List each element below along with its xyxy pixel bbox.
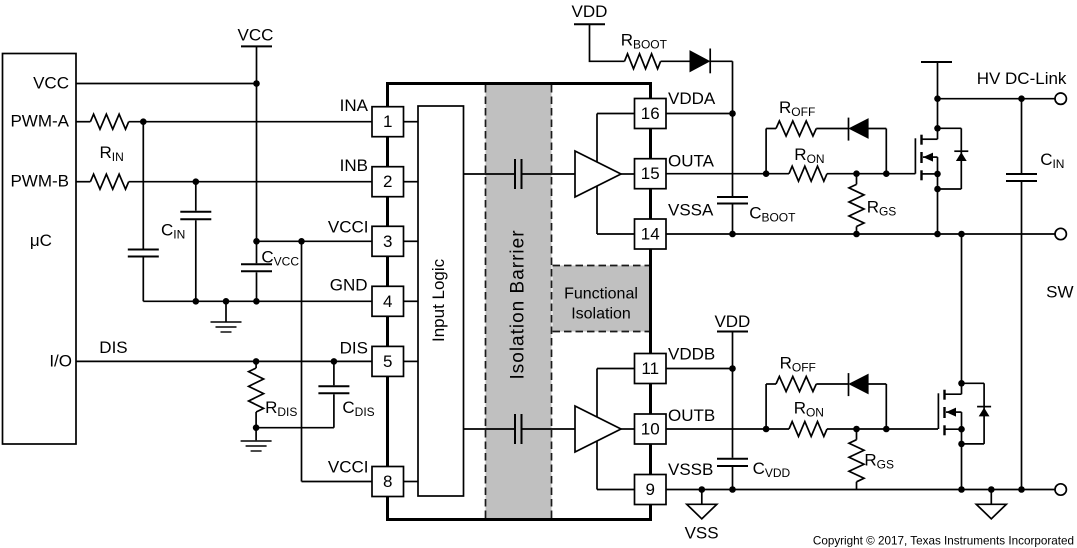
junction VCCI rail [253,238,260,245]
wire logic to isocap A [464,173,515,175]
junction OUTB roff [763,426,770,433]
junction VSSA rgs [853,231,860,238]
buffer amplifier B [575,406,621,452]
pin 9 [635,475,667,505]
junction CBOOT vssa [729,231,736,238]
isolation barrier right dashed edge [551,85,553,518]
MOSFET Q2 gate [938,390,944,436]
wire ROFF B to diode [816,383,848,385]
isolation capacitor A [515,159,522,189]
svg-text:4: 4 [383,292,392,311]
wire ROFF B left leg [765,384,767,429]
wire RGS A top [856,174,858,185]
junction OUTA rgs [853,170,860,177]
resistor RIN-B [90,174,128,189]
wire CDIS top [333,361,335,385]
wire VDD B rail lower [732,467,734,490]
pin 4 [372,286,404,316]
wire driver A rail [596,114,598,235]
svg-text:3: 3 [383,232,392,251]
pin 15 [635,159,667,189]
wire isocap A to buffer [523,173,576,175]
wire ROFF B right leg [885,384,887,429]
junction Q1 source [934,171,941,178]
wire CVCC top [256,241,258,263]
svg-text:VDD: VDD [572,2,608,21]
terminal SW [1055,228,1066,239]
MOSFET Q1 body arrow [923,153,938,162]
wire Q1 source stub [922,173,938,175]
svg-text:16: 16 [641,104,660,123]
wire CIN top [195,182,197,211]
wire cap-A bottom [142,258,144,302]
junction OUTA roff [763,170,770,177]
wire Q2 drain column [961,234,963,394]
resistor RBOOT [625,54,661,69]
junction HV row [934,95,941,102]
svg-text:8: 8 [383,472,392,491]
junction body diode A top [934,125,941,132]
svg-text:VDDA: VDDA [668,89,716,108]
svg-text:VCC: VCC [33,73,69,92]
wire HV drain column A [937,62,939,139]
terminal HV DC-Link [1055,93,1066,104]
svg-text:10: 10 [641,420,660,439]
svg-text:VSSB: VSSB [668,460,713,479]
wire PWM-A to INA [129,121,372,123]
wire Q1 drain stub [922,138,938,140]
wire ROFF A to diode [816,128,848,130]
svg-text:Input Logic: Input Logic [429,258,448,342]
junction OUTB rgs [853,426,860,433]
resistor RDIS [249,368,264,412]
wire OUTA row left [666,173,789,175]
wire driver B vss stub [597,489,635,491]
wire VDD A to RBOOT [590,24,625,61]
resistor RON A [789,166,827,181]
wire stub DIS5 [404,360,419,362]
wire CVCC bottom [256,272,258,301]
pin 1 [372,107,404,137]
svg-text:VCC: VCC [238,25,274,44]
wire VDDB row [666,368,733,370]
input logic box [418,106,464,496]
junction RDIS gnd [253,424,260,431]
pin 5 [372,346,404,376]
junction DIS CDIS [331,358,338,365]
junction SW fetB [958,231,965,238]
MOSFET Q2 body arrow [946,408,962,417]
svg-text:VDD: VDD [714,312,750,331]
wire Q2 source column [961,412,963,489]
wire stub VCCI3 [404,240,419,242]
wire pwr gnd stub [990,490,992,505]
svg-text:Copyright © 2017, Texas Instru: Copyright © 2017, Texas Instruments Inco… [813,534,1074,547]
wire OUTA row right [827,173,915,175]
junction GND CIN [193,298,200,305]
wire OUTB row right [827,428,938,430]
wire driver B vdd stub [597,368,635,370]
wire driver A vss stub [597,233,635,235]
wire ROFF A lead [766,128,776,130]
wire RGS A bottom [856,227,858,235]
wire RDIS top [255,361,257,368]
wire diode A out [868,128,886,130]
junction OUTA diode [883,170,890,177]
terminal bottom [1055,484,1066,495]
capacitor CBOOT [717,197,748,204]
junction DIS RDIS [253,358,260,365]
svg-text:1: 1 [383,112,392,131]
pin 8 [372,467,404,497]
junction body diode B top [958,380,965,387]
svg-text:14: 14 [641,225,660,244]
svg-text:15: 15 [641,164,660,183]
wire PWM-A stub [76,121,90,123]
wire RGS B bottom [856,482,858,490]
junction OUTB diode [883,426,890,433]
svg-text:9: 9 [646,480,655,499]
wire logic to isocap B [464,428,515,430]
ground VSS triangle [687,504,717,519]
junction VCC [253,80,260,87]
capacitor CIN right [1006,174,1037,181]
wire VCC rail down [256,46,258,241]
diode DOFF B [849,373,869,396]
svg-text:INA: INA [340,96,369,115]
resistor RIN-A [90,114,128,129]
svg-text:Isolation: Isolation [571,306,631,323]
svg-text:PWM-A: PWM-A [10,111,69,130]
svg-text:Isolation Barrier: Isolation Barrier [508,229,529,379]
wire cap-A top [142,122,144,249]
wire stub INA [404,121,419,123]
VCC supply bar [241,45,272,47]
wire VSSB row [666,489,1055,491]
wire VDDA row [666,113,733,115]
wire CDIS return [256,427,334,429]
body diode Q2 [962,383,992,444]
body diode Q1 [938,128,969,189]
resistor ROFF A [776,121,816,136]
wire PWM-B stub [76,181,90,183]
junction VCCI branch [298,238,305,245]
svg-text:OUTB: OUTB [668,406,715,425]
microcontroller box uC [3,54,77,445]
wire diode B out [868,383,886,385]
junction CVDD vssb [729,486,736,493]
capacitor CVDD [717,459,748,466]
wire VSSA SW row [666,233,1055,235]
svg-text:HV DC-Link: HV DC-Link [977,69,1067,88]
junction GND sym [223,298,230,305]
wire driver B rail [596,369,598,490]
HV bus bar [921,61,952,63]
wire boot rail lower [732,205,734,235]
wire PWM-B to INB [129,181,372,183]
capacitor CVCC [241,264,272,271]
svg-text:DIS: DIS [99,338,127,357]
svg-text:5: 5 [383,352,392,371]
svg-text:GND: GND [330,276,368,295]
wire boot rail upper [732,61,734,196]
wire VCC from uC [76,83,256,85]
wire OUTB row left [666,428,789,430]
wire stub INB [404,181,419,183]
wire isocap B to buffer [523,428,576,430]
wire Q1 source column [937,157,939,234]
junction CIN bottom [1018,486,1025,493]
wire diode to boot rail [710,60,732,62]
MOSFET Q1 gate [915,135,921,181]
svg-text:DIS: DIS [340,339,368,358]
wire DIS row [76,360,372,362]
wire CDIS bottom [333,394,335,427]
wire RBOOT to diode [661,60,690,62]
isolation barrier region [486,85,552,518]
pin 16 [635,99,667,129]
svg-text:SW: SW [1046,283,1073,302]
wire RGS B top [856,429,858,440]
diode DBOOT [690,49,710,74]
svg-text:Functional: Functional [564,285,638,302]
wire CIN right top [1021,99,1023,173]
wire driver A vdd stub [597,113,635,115]
wire VCCI row [256,240,372,242]
wire ROFF A left leg [765,129,767,174]
junction VDDA boot [729,110,736,117]
svg-text:VDDB: VDDB [668,345,715,364]
svg-text:INB: INB [340,156,368,175]
isolation capacitor B [515,414,522,444]
svg-text:11: 11 [641,359,659,378]
wire GND row [143,300,372,302]
functional isolation region [553,266,650,332]
junction PWM-B filter [193,178,200,185]
pin 3 [372,226,404,256]
capacitor CDIS [318,386,349,393]
VDD B supply bar [717,331,748,333]
junction Q2 body [958,441,965,448]
ground earth GND [211,322,242,332]
svg-text:OUTA: OUTA [668,152,715,171]
wire stub GND [404,300,419,302]
wire VDD B rail upper [732,332,734,458]
junction VSS [699,486,706,493]
wire CIN bottom [195,220,197,301]
wire stub VCCI8 [404,481,419,483]
pin 2 [372,167,404,197]
svg-text:VSS: VSS [685,524,719,543]
junction Q2 source [958,426,965,433]
wire buffer B out [621,428,635,430]
wire CIN right bottom [1021,182,1023,490]
isolation barrier left dashed edge [485,85,487,518]
wire Q2 drain stub [945,393,962,395]
diode DOFF A [849,118,869,141]
pin 14 [635,219,667,249]
svg-text:2: 2 [383,172,392,191]
svg-text:I/O: I/O [49,352,72,371]
svg-text:VCCI: VCCI [328,218,369,237]
junction pwr gnd [988,486,995,493]
svg-text:μC: μC [30,231,52,250]
ground earth RDIS [241,441,272,451]
wire pin8 row [302,481,373,483]
wire buffer A out [621,173,635,175]
svg-text:VCCI: VCCI [328,458,369,477]
svg-text:VSSA: VSSA [668,201,714,220]
junction Q2 vss [958,486,965,493]
resistor RGS B [849,440,864,482]
wire ROFF A right leg [885,129,887,174]
junction Q1 body [934,186,941,193]
wire ROFF B lead [766,383,776,385]
junction VSSA fet [934,231,941,238]
pin 10 [635,414,667,444]
capacitor CIN-B [180,212,211,220]
capacitor CIN-A [128,250,159,257]
resistor RGS A [849,184,864,226]
wire VCCI to pin8 [301,241,303,481]
wire RDIS bottom [255,412,257,428]
wire HV DC-Link row [938,98,1055,100]
junction HV CIN [1018,95,1025,102]
resistor RON B [789,422,827,437]
ground power triangle [976,504,1006,519]
junction VDDB [729,365,736,372]
junction GND CVCC [253,298,260,305]
svg-text:PWM-B: PWM-B [10,171,69,190]
IC body UCC21520 [388,84,651,520]
wire GND stub [225,301,227,321]
pin 11 [635,354,667,384]
junction PWM-A filter [140,118,147,125]
wire Q2 source stub [945,428,962,430]
wire RDIS gnd stub [255,428,257,441]
VDD A supply bar [574,23,605,25]
resistor ROFF B [776,377,816,392]
wire VSS stub [701,490,703,505]
buffer amplifier A [575,151,621,197]
